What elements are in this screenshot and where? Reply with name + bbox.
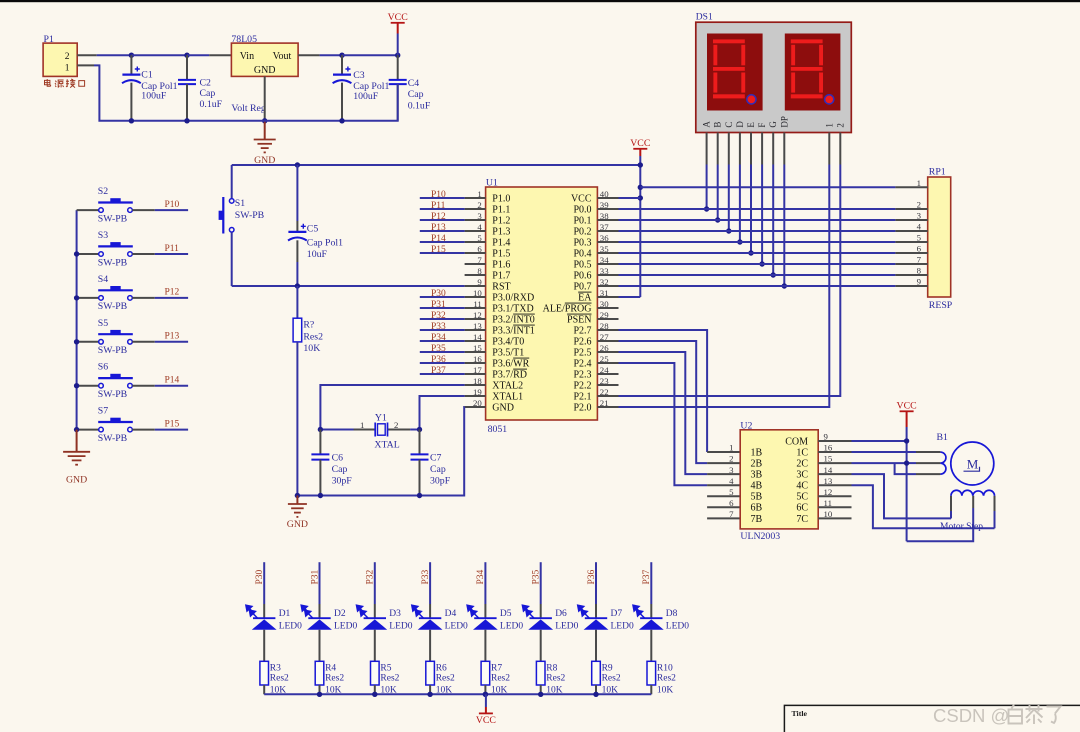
svg-text:10uF: 10uF (307, 249, 328, 260)
svg-text:E: E (746, 122, 756, 128)
svg-text:Vout: Vout (273, 51, 292, 62)
svg-text:P11: P11 (431, 201, 446, 211)
wire switch-bank left rail (76, 210, 78, 430)
svg-text:G: G (768, 121, 778, 128)
wire net P33 to U1 pin 13 (420, 329, 465, 331)
svg-text:VCC: VCC (388, 12, 408, 23)
wire net P10 (155, 209, 188, 211)
svg-text:P33: P33 (421, 569, 431, 584)
svg-text:20: 20 (473, 398, 482, 408)
node coil-centre/VCC junction (904, 460, 909, 465)
wire C3 to C4/VCC (342, 54, 398, 56)
svg-text:PSEN: PSEN (567, 314, 591, 325)
svg-text:1B: 1B (751, 447, 763, 458)
switch S5 (77, 341, 99, 343)
regulator U 78L05 (231, 43, 298, 76)
node VCC/U1-pin40 junction (638, 195, 643, 200)
resistor R4 (315, 661, 324, 685)
svg-text:P12: P12 (431, 212, 446, 222)
wire net P30 (LED column) (263, 562, 265, 604)
svg-text:4: 4 (917, 222, 922, 232)
wire R6 to rail (429, 685, 431, 694)
wire R9 to rail (595, 685, 597, 694)
svg-text:P3.3/INT1: P3.3/INT1 (492, 325, 535, 336)
wire VCC feed to reset circuit (232, 164, 641, 166)
resistor R10 (647, 661, 656, 685)
svg-text:P12: P12 (165, 288, 180, 298)
svg-text:P0.7: P0.7 (573, 281, 591, 292)
wire EA to VCC (619, 296, 641, 298)
svg-text:29: 29 (600, 310, 609, 320)
svg-text:P2.6: P2.6 (573, 336, 591, 347)
wire net P37 to U1 pin 17 (420, 373, 465, 375)
node rail junction S3 (74, 251, 79, 256)
wire U1 GND to ground rail (297, 407, 464, 496)
connector P1 (43, 43, 77, 76)
svg-text:P2.1: P2.1 (573, 391, 591, 402)
svg-text:31: 31 (600, 288, 609, 298)
wire R7 to rail (484, 685, 486, 694)
svg-text:Res2: Res2 (491, 673, 510, 683)
svg-text:P0.1: P0.1 (573, 215, 591, 226)
svg-text:RST: RST (492, 281, 510, 292)
svg-text:S3: S3 (98, 230, 108, 241)
svg-text:14: 14 (473, 332, 482, 342)
svg-text:1: 1 (360, 420, 364, 430)
node rail junction S4 (74, 295, 79, 300)
wire P0.2 row (619, 230, 896, 232)
svg-text:11: 11 (824, 498, 832, 508)
svg-text:18: 18 (473, 376, 482, 386)
svg-text:S2: S2 (98, 186, 108, 197)
svg-text:39: 39 (600, 200, 609, 210)
node DS1 DP junction (782, 283, 787, 288)
resistor R9 (592, 661, 601, 685)
svg-text:10: 10 (473, 288, 482, 298)
svg-text:Res2: Res2 (270, 673, 289, 683)
svg-text:F: F (757, 123, 767, 128)
wire U2 input stubs (707, 451, 740, 453)
wire net P11 to U1 pin 2 (420, 208, 465, 210)
title block (784, 705, 1080, 732)
svg-text:LED0: LED0 (666, 621, 689, 631)
wire net P13 to U1 pin 4 (420, 230, 465, 232)
wire COM to VCC (852, 440, 907, 442)
svg-text:RP1: RP1 (929, 167, 946, 178)
svg-text:P31: P31 (431, 300, 446, 310)
svg-text:LED0: LED0 (389, 621, 412, 631)
svg-text:2B: 2B (751, 459, 763, 470)
wire P1 pin2 to C1 (97, 54, 132, 56)
wire P2.-3 U1 pin25 to U2 4B (619, 363, 708, 485)
svg-text:VCC: VCC (630, 138, 650, 149)
ground under switch bank (76, 430, 78, 452)
svg-text:P3.4/T0: P3.4/T0 (492, 336, 524, 347)
svg-text:P3.7/RD: P3.7/RD (492, 369, 527, 380)
svg-text:R8: R8 (546, 664, 557, 674)
watermark CSDN (933, 705, 1061, 727)
node rail junction S6 (74, 383, 79, 388)
svg-text:R?: R? (303, 320, 314, 331)
svg-text:Cap: Cap (332, 464, 348, 475)
svg-text:LED0: LED0 (445, 621, 468, 631)
svg-text:P1.1: P1.1 (492, 204, 510, 215)
svg-text:P37: P37 (431, 366, 446, 376)
motor B1 (stepper) (951, 442, 994, 485)
svg-text:9: 9 (824, 432, 829, 442)
diode D8 LED0 (650, 604, 652, 618)
power VCC (motor) (900, 410, 914, 412)
svg-text:C6: C6 (332, 452, 344, 463)
node LED rail junction (538, 692, 543, 697)
resistor R5 (371, 661, 380, 685)
svg-text:P15: P15 (431, 245, 446, 255)
svg-text:16: 16 (473, 354, 482, 364)
wire LED common rail (264, 693, 651, 695)
wire net P12 to U1 pin 3 (420, 219, 465, 221)
svg-text:DP: DP (779, 116, 789, 128)
svg-text:XTAL: XTAL (374, 439, 399, 450)
svg-text:1: 1 (477, 189, 481, 199)
wire crystal pin2 lead (388, 429, 411, 431)
node C7/crystal junction (417, 427, 422, 432)
node C2 top junction (184, 53, 189, 58)
driver U2 ULN2003 (740, 430, 818, 529)
svg-text:P13: P13 (165, 332, 180, 342)
node LED rail junction (593, 692, 598, 697)
svg-text:S4: S4 (98, 274, 108, 285)
svg-text:Title: Title (792, 709, 808, 718)
svg-text:P14: P14 (431, 234, 446, 244)
svg-text:D3: D3 (389, 609, 401, 619)
wire net P14 (155, 385, 188, 387)
diode D4 LED0 (429, 604, 431, 618)
svg-text:3: 3 (917, 211, 922, 221)
svg-text:LED0: LED0 (279, 621, 302, 631)
svg-text:13: 13 (473, 321, 482, 331)
svg-text:P1.6: P1.6 (492, 259, 510, 270)
svg-text:P2.3: P2.3 (573, 369, 591, 380)
svg-text:16: 16 (824, 443, 833, 453)
wire net P13 (155, 341, 188, 343)
svg-text:A: A (702, 121, 712, 128)
svg-text:Res2: Res2 (303, 331, 323, 342)
svg-text:6: 6 (917, 244, 922, 254)
svg-text:SW-PB: SW-PB (98, 213, 128, 224)
svg-text:P0.5: P0.5 (573, 259, 591, 270)
svg-text:P2.7: P2.7 (573, 325, 591, 336)
diode D3 LED0 (374, 604, 376, 618)
wire D5 cathode to R7 (484, 630, 486, 662)
svg-text:B1: B1 (937, 432, 949, 443)
wire P0.1 row (619, 219, 896, 221)
switch S7 (77, 429, 99, 431)
svg-text:10K: 10K (657, 686, 674, 696)
diode D1 LED0 (263, 604, 265, 618)
node DS1 G junction (771, 272, 776, 277)
svg-text:D6: D6 (555, 609, 567, 619)
svg-text:1: 1 (824, 123, 834, 128)
svg-text:78L05: 78L05 (231, 34, 257, 45)
wire D6 cathode to R8 (540, 630, 542, 662)
svg-text:14: 14 (824, 465, 833, 475)
svg-text:5B: 5B (751, 492, 763, 503)
svg-text:R4: R4 (325, 664, 336, 674)
node P1.2/C1 junction (129, 53, 134, 58)
svg-text:P36: P36 (431, 355, 446, 365)
svg-text:38: 38 (600, 211, 609, 221)
svg-text:P13: P13 (431, 223, 446, 233)
wire net P31 (LED column) (319, 562, 321, 604)
wire R5 to rail (374, 685, 376, 694)
svg-text:7: 7 (917, 255, 922, 265)
ground under 78L05 (264, 121, 266, 140)
wire D2 cathode to R4 (319, 630, 321, 662)
svg-text:23: 23 (600, 376, 609, 386)
svg-text:LED0: LED0 (334, 621, 357, 631)
svg-text:6: 6 (729, 498, 734, 508)
wire D7 cathode to R9 (595, 630, 597, 662)
node LED rail junction (427, 692, 432, 697)
node C7 bottom junction (417, 493, 422, 498)
capacitor C7 (419, 430, 421, 455)
svg-text:4: 4 (729, 476, 734, 486)
svg-text:10K: 10K (303, 343, 320, 354)
svg-text:U1: U1 (486, 177, 498, 188)
node C6 bottom junction (318, 493, 323, 498)
svg-text:C5: C5 (307, 224, 319, 235)
wire net P15 (155, 429, 188, 431)
svg-text:Y1: Y1 (375, 412, 387, 423)
svg-text:P14: P14 (165, 376, 180, 386)
svg-text:30: 30 (600, 299, 609, 309)
node rail junction S7 (74, 427, 79, 432)
svg-text:Motor Step: Motor Step (940, 522, 983, 532)
svg-text:Res2: Res2 (325, 673, 344, 683)
svg-text:M: M (967, 457, 979, 472)
switch S3 (77, 253, 99, 255)
wire net P33 (LED column) (429, 562, 431, 604)
wire R8 to rail (540, 685, 542, 694)
svg-text:2: 2 (65, 52, 70, 62)
svg-text:15: 15 (824, 454, 833, 464)
svg-text:CSDN @: CSDN @ (933, 705, 1009, 726)
wire Vout (298, 54, 320, 56)
svg-text:P32: P32 (366, 569, 376, 584)
svg-text:3B: 3B (751, 470, 763, 481)
svg-text:34: 34 (600, 255, 609, 265)
svg-text:2C: 2C (796, 459, 808, 470)
svg-text:S6: S6 (98, 362, 108, 373)
svg-text:Res2: Res2 (436, 673, 455, 683)
svg-text:C4: C4 (408, 78, 420, 89)
svg-text:Cap: Cap (200, 88, 216, 99)
svg-text:D: D (735, 121, 745, 128)
svg-text:4B: 4B (751, 481, 763, 492)
svg-text:2: 2 (394, 420, 398, 430)
wire net P36 (LED column) (595, 562, 597, 604)
wire P2.-1 U1 pin27 to U2 2B (619, 341, 708, 463)
wire P0.4 row (619, 252, 896, 254)
svg-text:P35: P35 (431, 344, 446, 354)
P1 comment label (Chinese)', note (45, 79, 85, 88)
node C5 top junction (295, 162, 300, 167)
svg-text:ALE/PROG: ALE/PROG (543, 303, 592, 314)
node C2 bottom junction (184, 118, 189, 123)
power VCC (top) (391, 22, 405, 24)
svg-text:P1.5: P1.5 (492, 248, 510, 259)
svg-text:P1.7: P1.7 (492, 270, 510, 281)
svg-text:21: 21 (600, 398, 609, 408)
svg-text:P2.4: P2.4 (573, 358, 591, 369)
capacitor C5 (296, 165, 298, 221)
svg-text:P0.3: P0.3 (573, 237, 591, 248)
svg-text:2: 2 (917, 200, 921, 210)
resistor R? (296, 286, 298, 318)
wire 4C to lower coil (852, 485, 995, 528)
svg-text:17: 17 (473, 365, 482, 375)
wire D3 cathode to R5 (374, 630, 376, 662)
svg-text:3C: 3C (796, 470, 808, 481)
svg-text:5: 5 (917, 233, 922, 243)
wire P0.3 row (619, 241, 896, 243)
svg-text:P2.0: P2.0 (573, 402, 591, 413)
svg-text:GND: GND (66, 475, 87, 486)
svg-text:P1.2: P1.2 (492, 215, 510, 226)
wire RST row (232, 285, 465, 287)
svg-text:7: 7 (477, 255, 482, 265)
svg-text:15: 15 (473, 343, 482, 353)
node C4 top junction (395, 53, 400, 58)
wire net P37 (LED column) (650, 562, 652, 604)
resistor R3 (260, 661, 269, 685)
svg-text:U2: U2 (740, 420, 752, 431)
svg-text:P10: P10 (431, 190, 446, 200)
wire net P32 to U1 pin 12 (420, 318, 465, 320)
svg-text:P30: P30 (431, 289, 446, 299)
svg-text:P1: P1 (44, 34, 54, 45)
svg-text:24: 24 (600, 365, 609, 375)
svg-text:XTAL1: XTAL1 (492, 391, 523, 402)
resistor R8 (536, 661, 545, 685)
resistor R7 (481, 661, 490, 685)
wire net P14 to U1 pin 5 (420, 241, 465, 243)
svg-text:P37: P37 (642, 569, 652, 584)
node DS1 C junction (726, 228, 731, 233)
svg-text:VCC: VCC (897, 401, 917, 412)
svg-text:37: 37 (600, 222, 609, 232)
svg-text:D1: D1 (279, 609, 291, 619)
power VCC (LED rail) (485, 694, 487, 707)
svg-text:R10: R10 (657, 664, 673, 674)
svg-text:S1: S1 (235, 198, 245, 209)
switch S6 (77, 385, 99, 387)
svg-text:GND: GND (492, 402, 514, 413)
svg-text:5: 5 (477, 233, 482, 243)
svg-text:Res2: Res2 (380, 673, 399, 683)
diode D2 LED0 (319, 604, 321, 618)
wire XTAL2 to crystal (320, 385, 464, 430)
wire P2.-2 U1 pin26 to U2 3B (619, 352, 708, 474)
wire VCC to coil centre tap (907, 508, 974, 541)
svg-text:S5: S5 (98, 318, 108, 329)
svg-text:Cap: Cap (408, 89, 424, 100)
node regulator GND junction (262, 118, 267, 123)
wire XTAL1 to crystal (420, 396, 465, 430)
node DS1 E junction (748, 250, 753, 255)
svg-text:D5: D5 (500, 609, 512, 619)
svg-text:P0.0: P0.0 (573, 204, 591, 215)
node C6/crystal junction (318, 427, 323, 432)
svg-text:1: 1 (917, 178, 921, 188)
svg-text:P34: P34 (431, 333, 446, 343)
capacitor C4 (397, 55, 399, 80)
svg-text:SW-PB: SW-PB (98, 345, 128, 356)
capacitor C1 (130, 55, 132, 74)
capacitor C3 (341, 55, 343, 74)
wire VCC to RP1 pin1 (640, 186, 895, 188)
svg-text:3: 3 (729, 465, 734, 475)
svg-text:VCC: VCC (476, 715, 496, 726)
wire 78L05 GND pin (264, 76, 266, 120)
svg-text:7B: 7B (751, 514, 763, 525)
svg-text:P33: P33 (431, 322, 446, 332)
svg-text:P2.2: P2.2 (573, 380, 591, 391)
wire VCC to U1 pin40 (619, 197, 641, 199)
svg-text:Cap: Cap (430, 464, 446, 475)
wire P0.6 row (619, 274, 896, 276)
svg-text:11: 11 (473, 299, 481, 309)
svg-text:D8: D8 (666, 609, 678, 619)
wire net P35 to U1 pin 15 (420, 351, 465, 353)
svg-text:100uF: 100uF (141, 91, 167, 102)
wire DS1 pin DP (783, 133, 785, 165)
svg-text:SW-PB: SW-PB (235, 210, 265, 221)
svg-text:C3: C3 (353, 70, 365, 81)
svg-text:C1: C1 (141, 70, 153, 81)
svg-text:LED0: LED0 (611, 621, 634, 631)
svg-text:13: 13 (824, 476, 833, 486)
wire P0.0 row (619, 208, 896, 210)
node VCC/RP1 junction (638, 185, 643, 190)
svg-text:XTAL2: XTAL2 (492, 380, 523, 391)
wire P0.7 row (619, 285, 896, 287)
node C3 top junction (339, 53, 344, 58)
svg-text:P1.0: P1.0 (492, 193, 510, 204)
svg-text:2: 2 (477, 200, 481, 210)
svg-text:8: 8 (917, 266, 922, 276)
svg-text:ULN2003: ULN2003 (740, 531, 780, 542)
svg-text:P1.4: P1.4 (492, 237, 510, 248)
wire net P34 (LED column) (484, 562, 486, 604)
svg-text:2: 2 (729, 454, 733, 464)
svg-text:10: 10 (824, 509, 833, 519)
wire C1 to C2 (131, 54, 187, 56)
svg-text:1: 1 (729, 443, 733, 453)
svg-text:0.1uF: 0.1uF (408, 101, 431, 112)
wire P0.5 row (619, 263, 896, 265)
svg-text:C7: C7 (430, 452, 442, 463)
svg-text:4: 4 (477, 222, 482, 232)
svg-text:100uF: 100uF (353, 91, 379, 102)
svg-text:C2: C2 (200, 78, 212, 89)
svg-text:EA: EA (578, 292, 592, 303)
svg-text:36: 36 (600, 233, 609, 243)
svg-text:P35: P35 (532, 569, 542, 584)
svg-text:8051: 8051 (488, 424, 508, 435)
node DS1 F junction (759, 261, 764, 266)
svg-text:25: 25 (600, 354, 609, 364)
